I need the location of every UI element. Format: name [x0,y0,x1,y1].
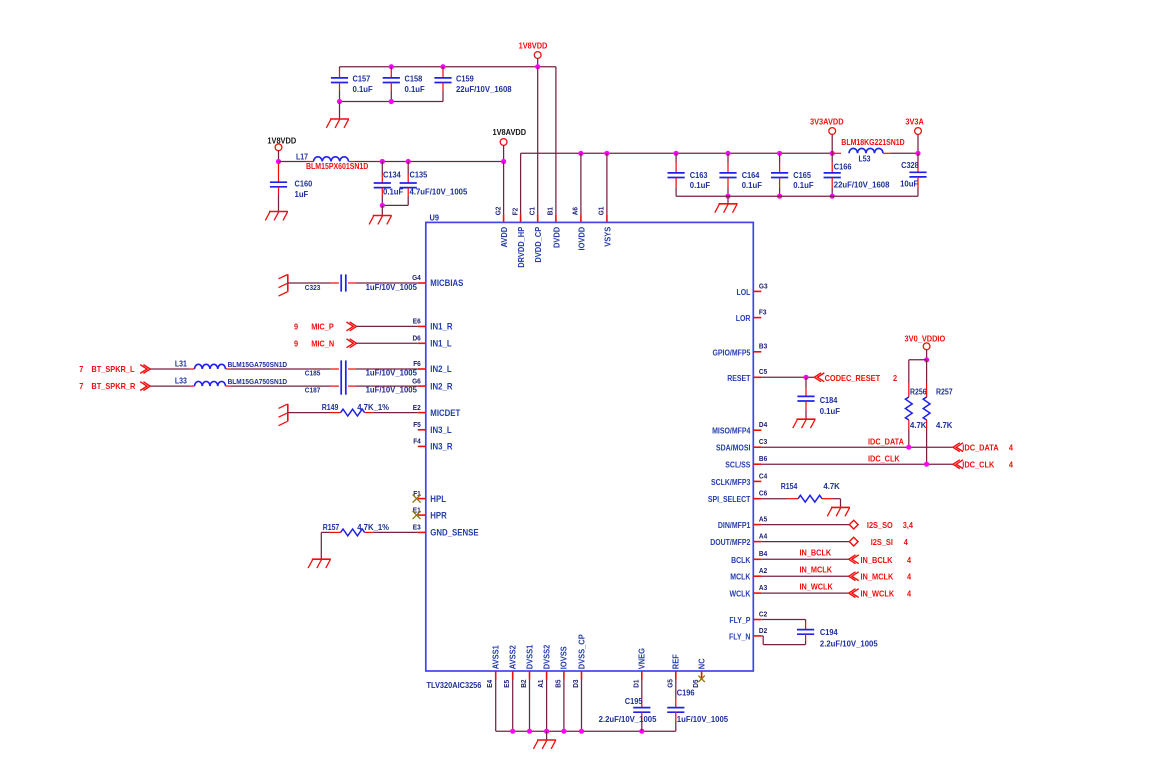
wire DIN/MFP1 to port [761,524,849,526]
pin A1 DVSS2 (bottom) [536,645,551,688]
ground (R154) [827,507,850,516]
svg-text:DVSS1: DVSS1 [524,645,534,670]
svg-text:1uF: 1uF [295,190,309,199]
svg-text:HPL: HPL [430,494,446,504]
pin C5 RESET (right) [727,367,767,383]
svg-text:BLM15GA750SN1D: BLM15GA750SN1D [228,360,288,369]
ground (C184) [793,419,816,428]
ground (MICDET, sideways) [279,404,288,426]
wire top caps bottom rail [340,101,444,103]
pin A6 IOVDD (top) [571,207,587,251]
svg-text:G1: G1 [597,207,606,216]
port MIC_P [294,322,357,332]
svg-text:F4: F4 [413,437,421,446]
capacitor C323 [288,274,418,292]
svg-text:IN_WCLK: IN_WCLK [800,581,833,591]
pin D4 MISO/MFP4 (right) [712,420,768,436]
svg-text:BT_SPKR_L: BT_SPKR_L [91,364,134,374]
capacitor C163 [668,153,711,196]
svg-text:A5: A5 [759,515,767,524]
svg-text:3V3A: 3V3A [905,116,924,126]
svg-text:R257: R257 [936,388,953,397]
wire MIC_P to IN1_R [357,325,418,327]
svg-text:1uF/10V_1005: 1uF/10V_1005 [366,385,418,394]
junction bottom rail C158 [389,99,394,104]
svg-text:LOL: LOL [737,288,751,297]
svg-text:2.2uF/10V_1005: 2.2uF/10V_1005 [599,715,657,724]
svg-text:C323: C323 [305,283,321,292]
svg-text:SCL/SS: SCL/SS [725,461,751,470]
svg-text:4: 4 [907,589,911,599]
pin B1 DVDD (top) [546,207,562,248]
svg-text:C195: C195 [625,696,643,706]
ground (C160) [265,212,288,221]
no-connect X HPL [413,495,421,503]
junction C134 [380,159,385,164]
svg-text:D2: D2 [759,626,767,635]
capacitor C328 [900,153,926,196]
junction A6 [578,151,583,156]
junction IDC_DATA [906,445,911,450]
svg-text:B2: B2 [519,680,528,688]
pin C1 DVDD_CP (top) [528,207,544,263]
svg-text:L33: L33 [175,377,187,386]
pin F2 DRVDD_HP (top) [510,208,526,268]
svg-text:B3: B3 [759,342,767,351]
junction C164 top [725,151,730,156]
svg-text:AVSS2: AVSS2 [508,645,518,669]
junction on 1V8VDD rail at symbol drop [535,64,540,69]
svg-text:4.7K: 4.7K [936,421,953,430]
wire BT_SPKR_L to L31 [150,368,194,370]
svg-text:1V8AVDD: 1V8AVDD [493,127,527,137]
resistor R256 [905,388,927,430]
resistor R257 [923,388,953,430]
svg-text:G2: G2 [493,207,502,216]
junction 3V3A/C328 [915,151,920,156]
wire 1V8VDD to L17 [279,161,314,163]
svg-text:BT_SPKR_R: BT_SPKR_R [91,381,135,391]
svg-text:4: 4 [1009,443,1013,453]
no-connect X HPR [413,511,421,519]
svg-text:IN3_L: IN3_L [430,425,452,435]
junction 1V8AVDD [501,159,506,164]
svg-text:DVSS_CP: DVSS_CP [576,634,586,669]
svg-text:F6: F6 [413,359,421,368]
svg-text:SPI_SELECT: SPI_SELECT [708,495,751,504]
capacitor C166 [824,153,890,196]
svg-text:BCLK: BCLK [731,556,750,565]
resistor R149 [322,403,389,416]
pin E3 GND_SENSE (left) [413,523,479,538]
wire R256 to IDC_DATA [908,420,910,447]
port MIC_N [294,339,357,349]
svg-text:IN3_R: IN3_R [430,442,453,452]
svg-text:0.1uF: 0.1uF [793,181,813,190]
capacitor C158 [383,67,425,102]
inductor L31 [175,360,288,370]
svg-text:IN2_L: IN2_L [430,364,452,374]
wire bottom column x=563.9 [563,680,565,732]
svg-text:2: 2 [893,373,897,383]
wire SDA/MOSI to port [761,436,953,447]
power symbol 3V0_VDDIO [905,334,946,360]
power symbol 3V3A [905,116,924,153]
port IDC_CLK [953,460,1013,470]
power symbol 1V8VDD (top) [519,41,548,67]
wire MCLK to port [761,564,848,576]
wire 3V3 rail [521,152,833,154]
svg-text:C134: C134 [383,170,401,180]
pin G4 MICBIAS (left) [412,273,463,288]
svg-text:C164: C164 [742,170,760,180]
junction bottom rail x=563.9 [561,729,566,734]
wire FLY_P to C194 [761,620,805,630]
svg-text:A1: A1 [536,680,545,688]
svg-text:C166: C166 [834,161,852,171]
svg-text:1V8VDD: 1V8VDD [519,41,548,51]
pin D2 FLY_N (right) [729,626,767,642]
wire VDDIO to R256 [909,360,927,397]
pin A5 DIN/MFP1 (right) [718,515,767,531]
pin C6 SPI_SELECT (right) [708,489,767,505]
wire L31 to C185 [230,368,339,370]
wire R257 column [926,360,928,397]
wire bottom column x=512.7 [512,680,514,732]
svg-text:D4: D4 [759,420,768,429]
svg-text:TLV320AIC3256: TLV320AIC3256 [427,680,482,690]
svg-text:22uF/10V_1608: 22uF/10V_1608 [834,180,890,189]
junction C164 bottom [725,194,730,199]
svg-text:IN_WCLK: IN_WCLK [861,589,895,599]
pin D3 DVSS_CP (bottom) [571,634,586,688]
svg-text:MIC_N: MIC_N [311,339,334,349]
svg-text:7: 7 [79,381,83,391]
svg-text:DRVDD_HP: DRVDD_HP [516,227,526,268]
svg-text:G6: G6 [412,376,421,385]
svg-text:VSYS: VSYS [602,227,612,247]
junction C166 top [830,151,835,156]
svg-text:C194: C194 [820,627,838,637]
svg-text:F2: F2 [510,208,519,216]
svg-text:IN1_R: IN1_R [430,322,453,332]
wire R149 to MICDET [365,412,418,414]
inductor L53 [832,138,918,164]
svg-text:4: 4 [904,537,908,547]
junction C165 top [777,151,782,156]
svg-text:7: 7 [79,364,83,374]
svg-text:NC: NC [696,658,706,669]
svg-text:R256: R256 [910,388,927,397]
wire BCLK to port [761,548,848,560]
svg-text:D6: D6 [413,334,421,343]
svg-text:L53: L53 [859,155,871,164]
svg-text:0.1uF: 0.1uF [820,407,840,416]
junction C134 bottom [380,203,385,208]
svg-text:A2: A2 [759,566,767,575]
pin C4 SCLK/MFP3 (right) [711,471,768,487]
svg-text:C3: C3 [759,437,767,446]
svg-text:IDC_CLK: IDC_CLK [868,453,900,463]
svg-text:DVDD: DVDD [551,227,561,248]
svg-text:DVDD_CP: DVDD_CP [533,227,543,263]
port IN_MCLK [849,572,912,582]
svg-text:4: 4 [1009,460,1013,470]
svg-text:B5: B5 [553,680,562,688]
wire bottom column x=581.5 [581,680,583,732]
svg-text:REF: REF [671,654,681,669]
pin E6 IN1_R (left) [413,317,453,332]
pin B6 SCL/SS (right) [725,454,767,470]
pin F5 IN3_L (left) [413,420,452,435]
wire GND_SENSE to R157 [365,531,418,533]
port CODEC_RESET [814,373,897,383]
wire WCLK to port [761,581,848,593]
wire FLY_N to C194 [761,634,805,644]
pin F6 IN2_L (left) [413,359,452,374]
ground (top caps) [326,119,349,128]
pin B5 IOVSS (bottom) [553,646,568,688]
svg-text:2.2uF/10V_1005: 2.2uF/10V_1005 [820,640,878,649]
junction C166 bottom [830,194,835,199]
svg-text:IN_BCLK: IN_BCLK [861,555,894,565]
inductor L17 [296,152,368,171]
svg-text:C157: C157 [353,74,371,84]
wire 1V8VDD top rail [340,66,556,68]
svg-text:C159: C159 [456,74,474,84]
pin F3 LOR (right) [736,308,767,324]
pin F4 IN3_R (left) [413,437,453,452]
svg-text:4.7K_1%: 4.7K_1% [357,403,389,412]
svg-text:C4: C4 [759,471,768,480]
svg-text:IOVDD: IOVDD [576,227,586,251]
power symbol 1V8VDD (left) [267,136,296,162]
svg-text:C5: C5 [759,367,767,376]
capacitor C157 [331,67,373,102]
capacitor C194 [797,627,878,649]
ground (bottom rail) [533,740,556,749]
wire BT_SPKR_R to L33 [150,385,194,387]
wire L33 to C187 [230,385,339,387]
port I2S_SI [849,537,908,547]
svg-text:HPR: HPR [430,510,447,520]
capacitor C159 [434,67,512,102]
svg-text:D1: D1 [631,680,640,688]
svg-text:DOUT/MFP2: DOUT/MFP2 [710,538,751,547]
resistor R157 [323,523,389,536]
pin G3 LOL (right) [737,281,768,297]
pin E5 AVSS2 (bottom) [502,645,517,688]
svg-text:C328: C328 [901,160,919,170]
inductor L33 [175,377,288,387]
wire C1 column [537,67,539,223]
junction C135 [406,159,411,164]
wire R257 to IDC_CLK [926,420,928,464]
svg-text:4.7K: 4.7K [910,421,927,430]
svg-text:MCLK: MCLK [730,573,750,582]
svg-text:B4: B4 [759,549,768,558]
pin A3 WCLK (right) [730,583,768,599]
svg-text:C184: C184 [820,395,838,405]
pin B2 DVSS1 (bottom) [519,645,534,688]
capacitor C195 [599,680,657,732]
svg-text:BLM15PX601SN1D: BLM15PX601SN1D [306,162,368,171]
svg-text:GND_SENSE: GND_SENSE [430,528,478,538]
svg-text:G5: G5 [665,679,674,688]
port BT_SPKR_L [79,364,150,374]
wire G1 column [606,153,608,222]
svg-text:AVSS1: AVSS1 [491,645,501,669]
svg-text:C158: C158 [405,74,423,84]
svg-text:C187: C187 [305,385,321,394]
pin E1 HPR (left) [413,505,447,520]
svg-text:G3: G3 [759,281,768,290]
svg-text:E5: E5 [502,680,511,688]
svg-text:I2S_SI: I2S_SI [871,537,893,547]
pin B4 BCLK (right) [731,549,768,565]
ground (C134/C135) [369,216,392,225]
svg-text:C135: C135 [410,170,428,180]
svg-text:VNEG: VNEG [637,648,647,669]
junction bottom rail C157 [337,99,342,104]
svg-text:L17: L17 [296,152,308,161]
svg-text:9: 9 [294,322,298,332]
pin D1 VNEG (bottom) [631,648,646,688]
junction C163 top [674,151,679,156]
capacitor C184 [797,377,840,419]
svg-text:IN1_L: IN1_L [430,339,452,349]
pin G2 AVDD (top) [493,207,509,248]
capacitor C134 [374,162,404,206]
svg-text:4.7K: 4.7K [823,482,840,491]
pin G5 REF (bottom) [665,654,680,688]
ground (3V3 caps) [715,204,738,213]
port IN_BCLK [849,555,912,565]
ground (MICBIAS, sideways) [279,274,288,296]
wire SCL/SS to port [761,453,953,464]
svg-text:1uF/10V_1005: 1uF/10V_1005 [677,715,729,724]
wire L17 to 1V8AVDD junction [355,161,504,163]
svg-text:3V0_VDDIO: 3V0_VDDIO [905,334,946,344]
svg-text:G4: G4 [412,273,421,282]
svg-text:C6: C6 [759,489,767,498]
wire A6 column [580,153,582,222]
svg-text:4: 4 [907,555,911,565]
svg-text:FLY_P: FLY_P [729,616,751,625]
svg-text:1V8VDD: 1V8VDD [267,136,296,146]
wire C157 ground stub [339,102,341,120]
wire bottom column x=495.7 [495,680,497,732]
wire RESET [761,376,814,378]
junction bottom rail x=512.7 [510,729,515,734]
capacitor C187 [305,378,418,395]
junction bottom rail x=529.5 [527,729,532,734]
op-amp U9 TLV320AIC3256 body [426,213,754,691]
svg-text:0.1uF: 0.1uF [690,181,710,190]
svg-text:BLM15GA750SN1D: BLM15GA750SN1D [228,377,288,386]
wire SPI_SELECT to R154 [761,498,798,500]
svg-text:FLY_N: FLY_N [729,632,751,641]
wire G2 column [503,162,505,223]
junction on 1V8VDD rail at C158 [389,64,394,69]
svg-text:IN_BCLK: IN_BCLK [800,548,832,558]
wire bottom ground rail [496,730,676,732]
svg-text:SCLK/MFP3: SCLK/MFP3 [711,478,751,487]
svg-text:RESET: RESET [727,374,750,383]
svg-text:9: 9 [294,339,298,349]
svg-text:LOR: LOR [736,314,751,323]
pin A2 MCLK (right) [730,566,767,582]
resistor R154 [781,482,840,502]
svg-text:1uF/10V_1005: 1uF/10V_1005 [366,283,418,292]
svg-text:C165: C165 [793,170,811,180]
svg-text:4: 4 [907,572,911,582]
svg-text:0.1uF: 0.1uF [383,188,403,197]
svg-text:I2S_SO: I2S_SO [867,520,893,530]
wire C134-C135 bottom [382,204,408,206]
wire C185 to IN2_L [356,368,418,370]
wire DOUT/MFP2 to port [761,541,849,543]
junction bottom rail x=581.5 [579,729,584,734]
junction 3V0_VDDIO [924,357,929,362]
wire bottom column x=546.6 [546,680,548,732]
svg-text:C1: C1 [528,207,537,215]
svg-text:IOVSS: IOVSS [559,646,569,669]
svg-text:22uF/10V_1608: 22uF/10V_1608 [456,85,512,94]
pin C2 FLY_P (right) [729,609,767,625]
svg-text:IDC_DATA: IDC_DATA [868,436,904,446]
svg-text:B6: B6 [759,454,767,463]
svg-text:C163: C163 [690,170,708,180]
wire R157 to ground [321,532,340,559]
svg-text:C2: C2 [759,609,767,618]
pin F1 HPL (left) [413,489,446,504]
wire R154 to ground [822,499,841,508]
ground (GND_SENSE) [308,559,331,568]
svg-text:10uF: 10uF [900,179,918,188]
svg-text:IN2_R: IN2_R [430,381,453,391]
capacitor C185 [305,360,418,377]
wire gnd to R149 [288,412,341,414]
svg-text:0.1uF: 0.1uF [742,181,762,190]
junction on 1V8VDD rail at C159 [440,64,445,69]
svg-text:3V3AVDD: 3V3AVDD [810,116,844,126]
svg-text:DVSS2: DVSS2 [541,645,551,670]
svg-text:IDC_DATA: IDC_DATA [962,443,998,453]
wire C187 to IN2_R [356,385,418,387]
svg-text:D3: D3 [571,680,580,688]
pin C3 SDA/MOSI (right) [716,437,767,453]
port IN_WCLK [849,589,912,599]
wire MIC_N to IN1_L [357,342,418,344]
svg-text:C185: C185 [305,368,321,377]
svg-text:C196: C196 [677,688,695,698]
svg-text:E6: E6 [413,317,421,326]
svg-text:E3: E3 [413,523,421,532]
svg-text:MICBIAS: MICBIAS [430,278,463,288]
pin B3 GPIO/MFP5 (right) [713,342,768,358]
svg-text:MIC_P: MIC_P [311,322,334,332]
wire B1 column [555,67,557,223]
svg-text:U9: U9 [430,213,440,223]
power symbol 1V8AVDD [493,127,527,162]
svg-text:E4: E4 [485,679,494,688]
svg-text:IN_MCLK: IN_MCLK [800,564,833,574]
capacitor C164 [719,153,762,196]
svg-text:B1: B1 [546,207,555,215]
wire rail ground stub [546,731,548,740]
capacitor C160 [270,163,313,212]
